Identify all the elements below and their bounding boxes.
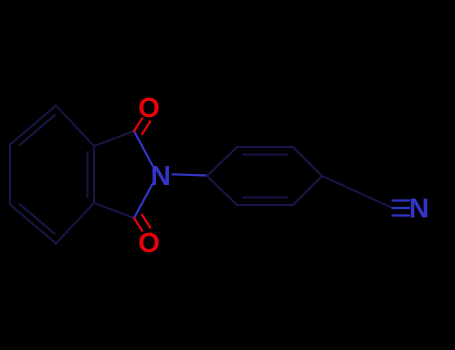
carbonyl C3=O double bond [134, 218, 142, 231]
wire C7a-C3a fusion [93, 146, 95, 203]
imide nitrogen bonds (blue) [134, 131, 207, 218]
wire phenyl to nitrile carbon [322, 176, 392, 208]
wire R-BR [293, 176, 322, 205]
wire BR-BL bottom [237, 204, 293, 206]
phenylene ring right outline [207, 147, 392, 208]
wire C6-C7 [10, 106, 56, 145]
carbonyl C1=O double bond [134, 118, 150, 231]
wire C4-C5 [10, 205, 56, 244]
wire C5-C6 [9, 145, 11, 205]
wire N-C1 [134, 131, 153, 166]
wire TR-R [293, 147, 322, 176]
svg-text:O: O [138, 227, 160, 258]
wire top inner double [243, 154, 287, 156]
wire BL-L [207, 176, 237, 205]
wire C3-C3a [94, 203, 134, 218]
wire C6-C7 inner double [20, 115, 55, 145]
wire N-C3 [134, 184, 153, 218]
wire N-phenyl [173, 174, 208, 175]
wire bottom inner double [243, 197, 287, 199]
wire TL-TR top [237, 146, 293, 148]
wire fusion inner double [87, 152, 89, 197]
wire L-TL [207, 147, 237, 176]
svg-text:O: O [138, 92, 160, 123]
wire C4-C5 inner double [20, 204, 55, 234]
nitrile triple bond [393, 201, 410, 216]
svg-text:N: N [151, 160, 171, 191]
wire C1-C7a [94, 131, 134, 146]
svg-text:N: N [409, 193, 429, 224]
wire C3a-C4 [56, 203, 94, 244]
wire C7-C7a [56, 106, 94, 147]
benzene ring left (phthalimide benzo ring) outline [10, 106, 134, 244]
